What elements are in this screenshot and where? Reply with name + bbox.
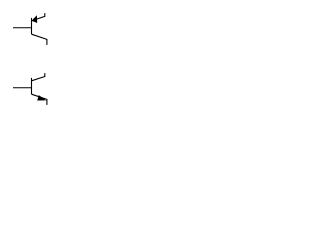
emitter diagonal + emitter lead Q1 xyxy=(32,13,45,21)
wire: base lead Q1 xyxy=(13,27,32,29)
emitter diagonal + emitter lead Q2 xyxy=(32,94,47,105)
transistor Q1 (PNP, emitter up) xyxy=(13,13,47,45)
base bar Q2 xyxy=(31,78,33,94)
collector diagonal + collector lead Q1 xyxy=(32,34,47,45)
base bar Q1 xyxy=(31,18,33,34)
transistor Q2 (NPN, emitter down) xyxy=(13,73,47,105)
emitter arrow Q2 (points away from bar: NPN) xyxy=(37,95,46,100)
collector diagonal + collector lead Q2 xyxy=(32,73,45,81)
wire: base lead Q2 xyxy=(13,87,32,89)
emitter arrow Q1 (points into base bar: PNP) xyxy=(32,15,38,23)
